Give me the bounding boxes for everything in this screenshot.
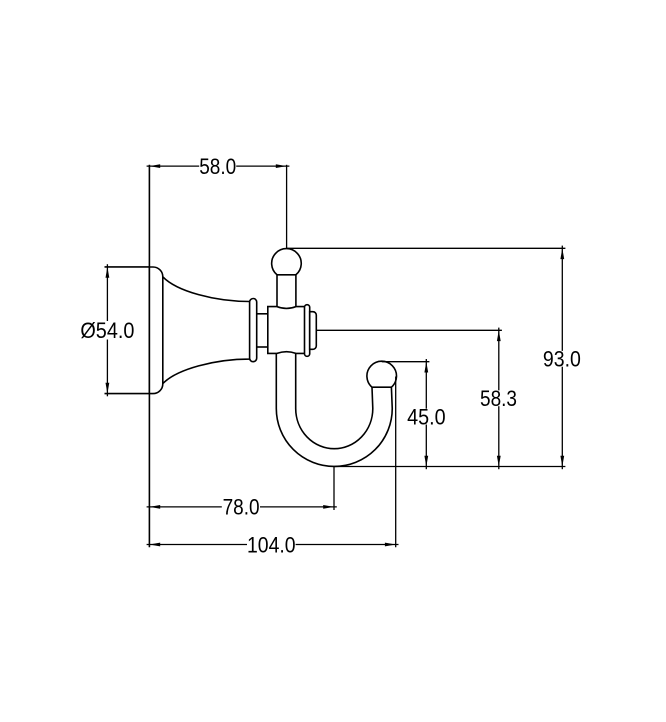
flange plate edge [162,277,164,384]
arrow dim 93.0 top [560,248,564,259]
extension line dim 78.0 right [333,467,335,510]
arrow dim O54.0 bottom [106,383,110,394]
capsule ring left [250,299,257,362]
dimension line 104.0 [147,544,247,546]
flange silhouette [149,267,249,394]
svg-text:78.0: 78.0 [223,494,260,519]
arrow dim 58.3 bottom [497,456,501,467]
svg-text:104.0: 104.0 [247,532,296,557]
arrow dim 93.0 bottom [560,456,564,467]
dimension line 45.0 [425,359,427,409]
extension line dim 45.0 top [382,361,430,363]
svg-text:93.0: 93.0 [543,347,581,372]
end cap [310,312,317,350]
svg-text:58.3: 58.3 [480,386,517,411]
extension line dim 93.0 top [287,247,566,249]
hook ball [367,361,397,387]
svg-text:58.0: 58.0 [199,154,236,179]
extension line dim O54.0 top [105,266,150,268]
hook arm outer [276,351,392,466]
dimension line O54.0 [106,264,108,321]
extension line dim O54.0 bottom [105,393,150,395]
capsule ring right [305,305,310,357]
arrow dim 58.3 top [497,330,501,341]
svg-text:Ø54.0: Ø54.0 [80,318,134,343]
dimension line 78.0 [147,506,222,508]
arrow dim 58.0 left [149,164,160,168]
arrow dim 104.0 right [385,543,396,547]
extension line bottom shared 93.0/58.3/45.0 [334,466,565,468]
extension line dim 58.3 top [316,329,502,331]
arrow dim O54.0 top [106,267,110,278]
arrow dim 104.0 left [149,543,160,547]
arrow dim 45.0 bottom [424,456,428,467]
arrow dim 78.0 left [149,505,160,509]
extension line dim 58.0 right [286,165,288,249]
extension line dim 104.0 right [395,377,397,548]
dimension line 93.0 [561,246,563,351]
arrow dim 45.0 top [424,362,428,373]
arrow dim 58.0 right [276,164,287,168]
block [268,307,305,354]
wall face line [148,165,150,547]
neck cylinder [256,313,269,315]
top ball [272,249,302,275]
dimension line 58.0 [147,165,200,167]
hook arm inner [296,351,373,449]
arrow dim 78.0 right [323,505,334,509]
stem [276,275,278,308]
svg-text:45.0: 45.0 [407,404,446,429]
dimension line 58.3 [498,328,500,391]
